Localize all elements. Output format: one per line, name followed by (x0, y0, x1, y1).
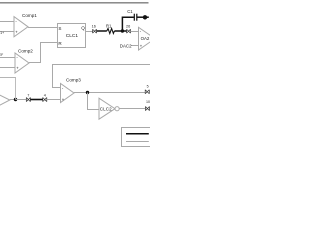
pin 16 symbol (93, 29, 97, 33)
output node dot (143, 15, 147, 19)
wire Comp2 output to CLC1 R (29, 43, 57, 63)
input buffer (clipped at left edge) (0, 94, 10, 106)
svg-text:DAC2: DAC2 (120, 44, 132, 49)
junction node (121, 29, 124, 32)
svg-text:5: 5 (147, 84, 149, 88)
pin symbol at right edge (Comp3 out) (145, 90, 149, 94)
wire Comp1 output to CLC1 S (28, 27, 57, 29)
svg-text:R1: R1 (106, 23, 112, 28)
wire junction to pin 7 (16, 99, 27, 101)
inverter CLC2 (99, 98, 119, 119)
resistor R1 (107, 29, 115, 34)
wire pin26 to OA2 -input (131, 31, 139, 33)
wire CLC2 output to right edge pin (119, 108, 145, 110)
wire C1 to output node (bold) (137, 16, 149, 18)
wire junction up to C1 (bold) (122, 17, 133, 31)
svg-text:Comp3: Comp3 (66, 77, 81, 82)
legend box (clipped at right edge) (122, 128, 153, 147)
wire external pin7 to pin4 (bold) (30, 99, 42, 101)
wire junction down to CLC2 input (88, 93, 100, 110)
wire pin4 to Comp3 +input (47, 99, 61, 101)
junction node (86, 91, 89, 94)
comparator Comp2 (15, 49, 33, 73)
svg-text:Comp2: Comp2 (18, 49, 33, 54)
comparator Comp3 (61, 77, 82, 102)
wire feedback net from right edge to Comp3 -input (53, 65, 151, 88)
op-amp OA2 (139, 27, 156, 50)
wire R1 to junction and pin 26 (bold) (114, 30, 126, 32)
wire junction up and out left edge (0, 78, 16, 100)
logic cell CLC1 (58, 24, 86, 48)
svg-text:4: 4 (44, 94, 46, 98)
pin 7 symbol (26, 98, 30, 102)
svg-text:7: 7 (27, 94, 29, 98)
junction node (14, 98, 17, 101)
svg-text:C1: C1 (127, 9, 133, 14)
wire buffer output to junction (10, 99, 16, 101)
svg-text:OA2: OA2 (141, 36, 150, 41)
svg-text:26: 26 (126, 24, 130, 28)
wire Comp2 +input (0, 67, 15, 69)
wire Comp2 -input (0, 57, 15, 59)
svg-text:C1+: C1+ (0, 31, 4, 35)
wire CLC1 Q output stub (86, 31, 93, 33)
top border rule (0, 2, 149, 4)
svg-text:Q: Q (81, 25, 85, 30)
pin 26 symbol (127, 29, 131, 33)
capacitor C1 (134, 14, 137, 21)
wire Comp1 +input (0, 31, 14, 33)
wire Comp1 -input (0, 21, 14, 23)
svg-text:S: S (58, 26, 61, 31)
svg-text:10: 10 (146, 100, 150, 104)
svg-text:Comp1: Comp1 (22, 13, 37, 18)
pin 4 symbol (43, 98, 47, 102)
svg-text:REF: REF (0, 53, 3, 57)
wire Comp3 output (74, 92, 145, 94)
svg-text:16: 16 (92, 24, 96, 28)
wire external pin16 to R1 (bold) (97, 30, 107, 32)
svg-text:CLC1: CLC1 (66, 33, 79, 39)
comparator Comp1 (14, 13, 37, 37)
svg-text:CLC2: CLC2 (100, 107, 112, 112)
pin symbol at right edge (CLC2 out) (145, 107, 149, 111)
wire DAC2 to OA2 +input (131, 45, 139, 47)
